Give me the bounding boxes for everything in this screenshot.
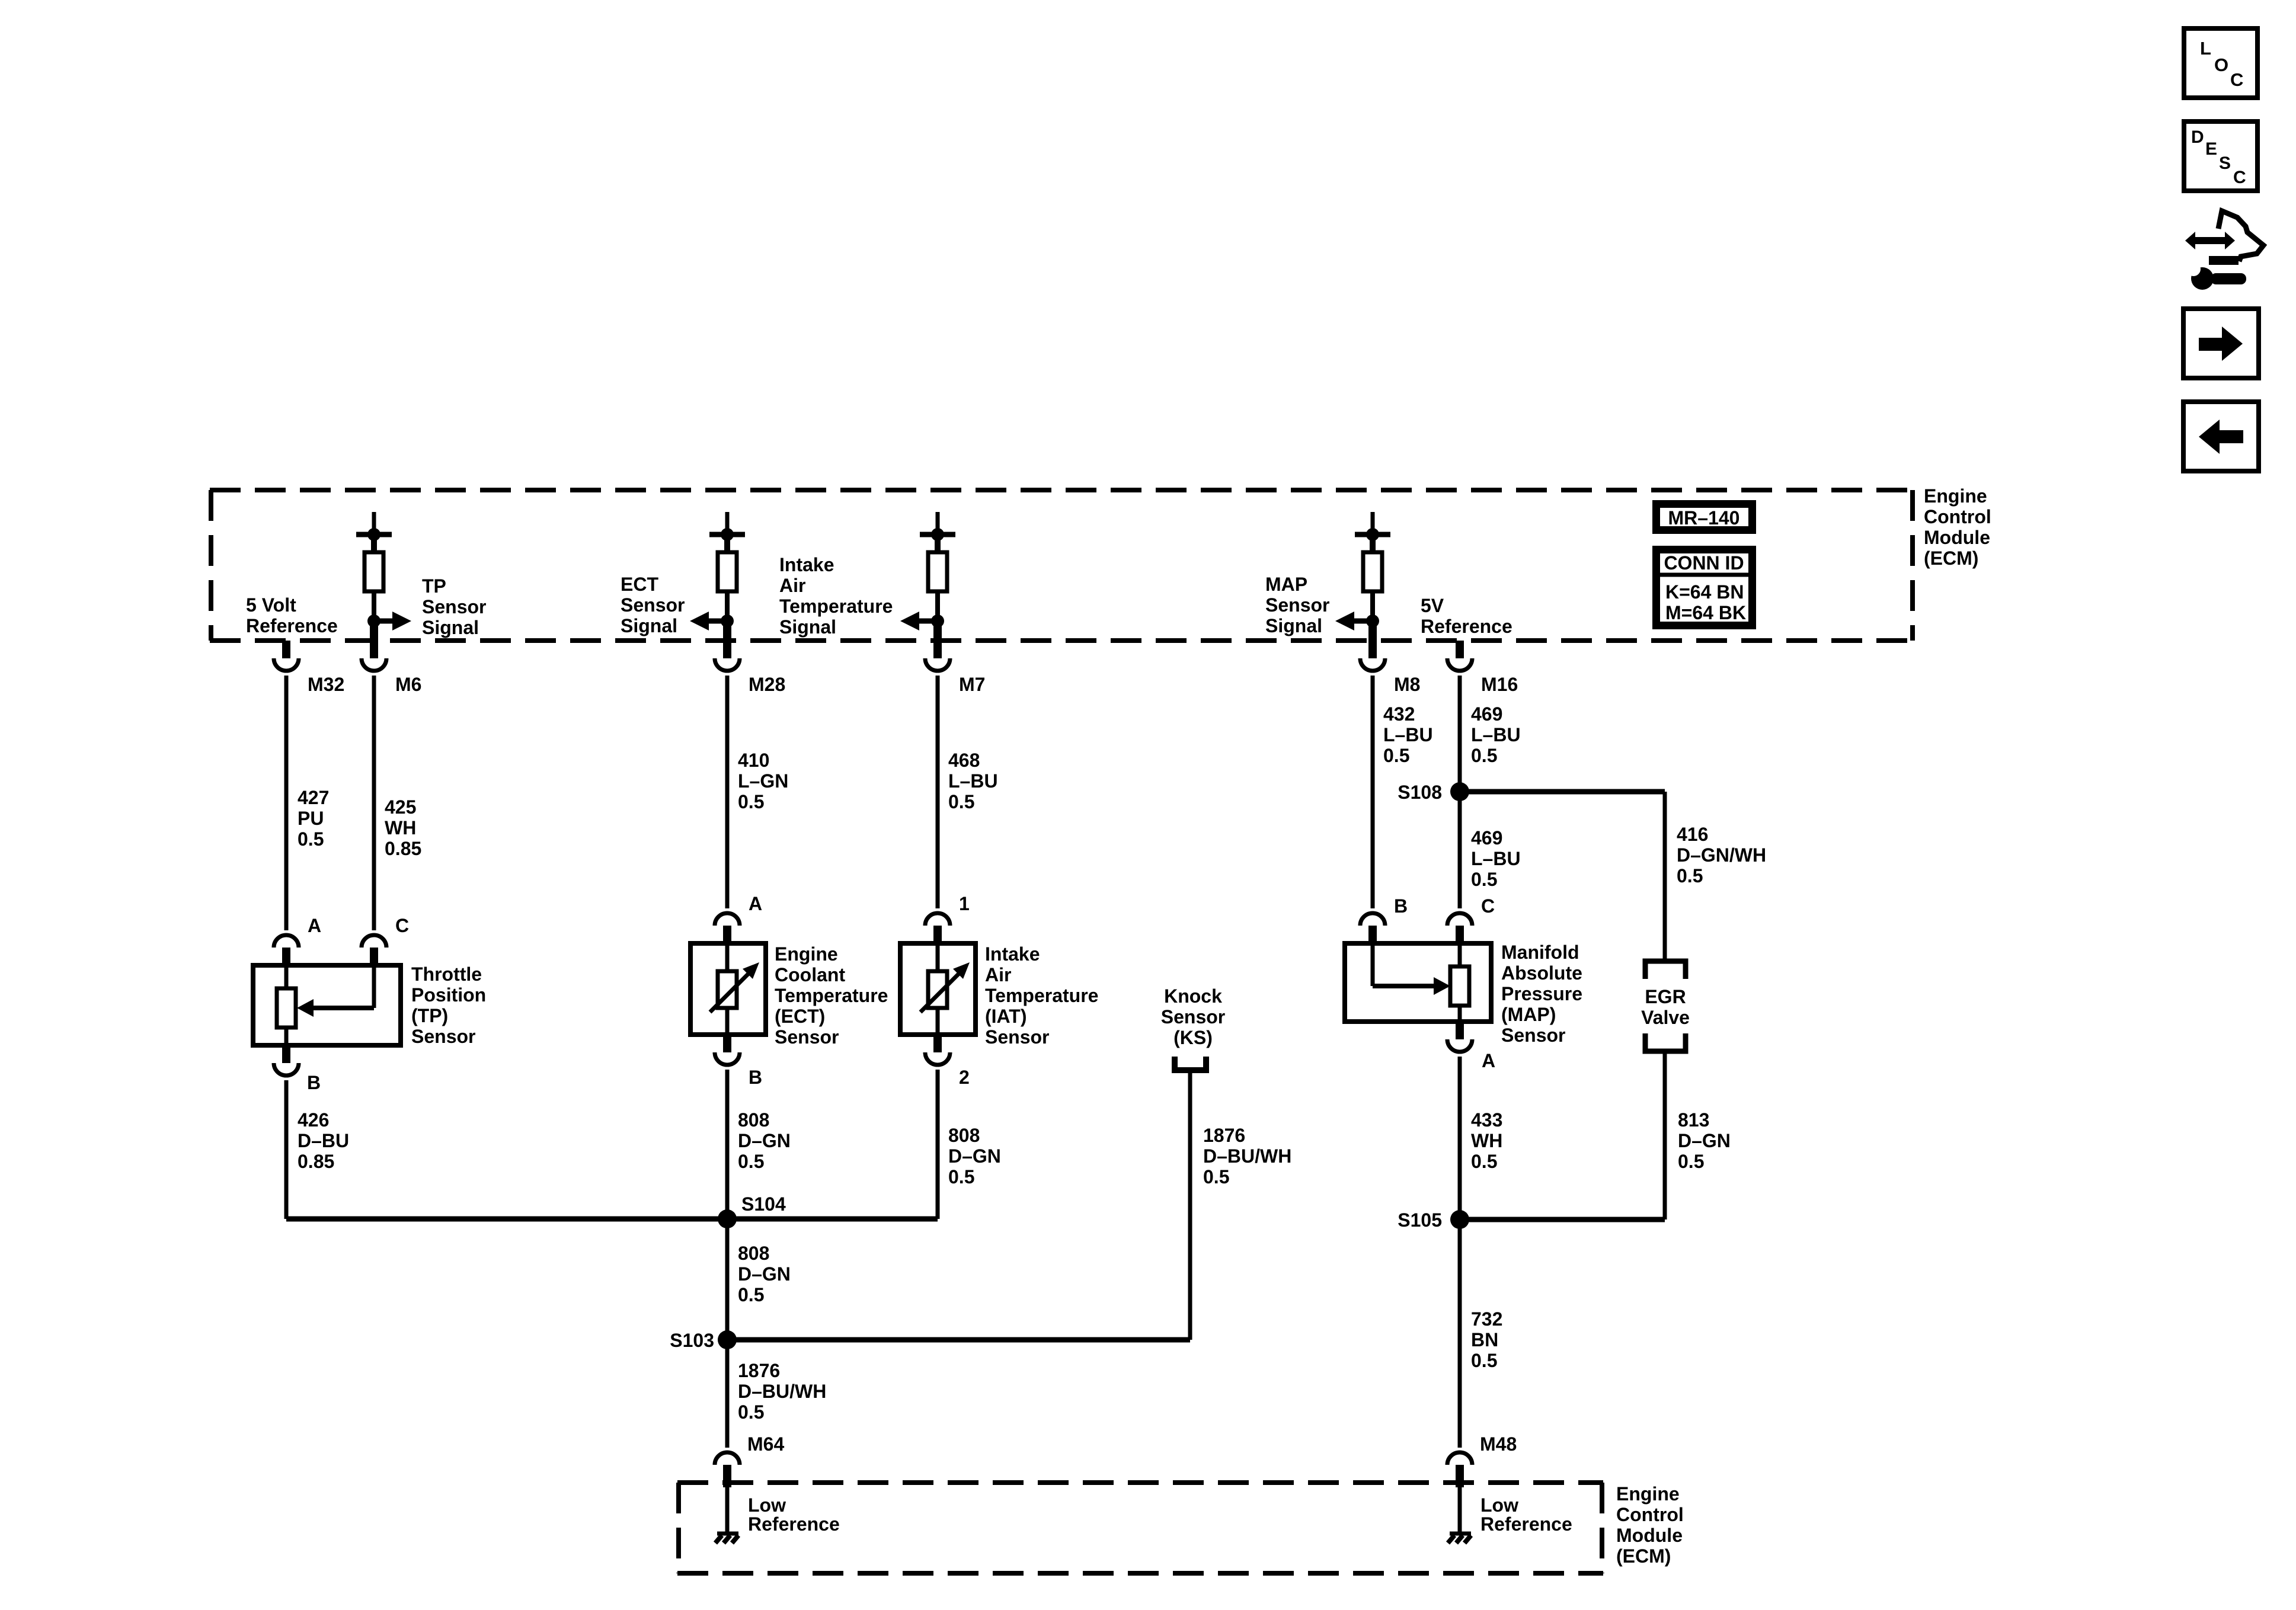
- svg-text:WH: WH: [385, 817, 416, 838]
- arrow ECT Sensor Signal: [690, 612, 727, 630]
- label wire 808 D-GN 0.5 (S104-S103): [738, 1243, 791, 1305]
- wire to ground (M48): [1458, 1487, 1462, 1534]
- label wire 410 L-GN 0.5: [738, 750, 788, 812]
- svg-text:Reference: Reference: [1480, 1513, 1572, 1535]
- connector M28: [715, 641, 740, 671]
- svg-text:M48: M48: [1480, 1433, 1517, 1455]
- label wire 426 D-BU 0.85: [298, 1109, 349, 1172]
- label pin B (ECT): [749, 1067, 762, 1088]
- svg-text:(MAP): (MAP): [1501, 1004, 1556, 1025]
- label M6: [395, 674, 421, 695]
- label S105: [1398, 1209, 1442, 1231]
- svg-text:Engine: Engine: [1616, 1483, 1680, 1505]
- svg-text:808: 808: [738, 1243, 769, 1264]
- svg-text:0.5: 0.5: [298, 828, 324, 850]
- svg-text:Low: Low: [1480, 1494, 1518, 1516]
- svg-text:M6: M6: [395, 674, 421, 695]
- label pin A (TP): [308, 915, 321, 936]
- svg-text:D: D: [2191, 127, 2204, 147]
- svg-text:Sensor: Sensor: [1501, 1025, 1565, 1046]
- junction dot M28: [721, 614, 734, 628]
- svg-text:732: 732: [1471, 1308, 1502, 1330]
- svg-text:5V: 5V: [1421, 595, 1444, 616]
- svg-text:Temperature: Temperature: [779, 596, 893, 617]
- svg-text:O: O: [2214, 55, 2228, 75]
- wire 813 (EGR down to S105): [1460, 1051, 1665, 1219]
- svg-text:Air: Air: [985, 964, 1011, 985]
- svg-text:Sensor: Sensor: [621, 594, 685, 616]
- svg-text:M=64 BK: M=64 BK: [1665, 602, 1746, 623]
- label Intake Air Temperature (IAT) Sensor: [985, 943, 1098, 1048]
- svg-text:M16: M16: [1481, 674, 1518, 695]
- svg-text:Intake: Intake: [779, 554, 834, 575]
- label wire 432 L-BU 0.5: [1383, 703, 1433, 766]
- junction S105: [1450, 1210, 1469, 1229]
- label wire 1876 D-BU/WH 0.5 (KS): [1203, 1125, 1291, 1188]
- wire 468 (M7 to IAT 1): [936, 676, 940, 908]
- svg-text:Reference: Reference: [1421, 616, 1512, 637]
- connector MAP pin C: [1447, 913, 1472, 943]
- ECT sensor box: [690, 943, 766, 1035]
- CONN ID table: [1657, 550, 1753, 626]
- svg-text:A: A: [749, 893, 762, 914]
- svg-text:1876: 1876: [738, 1360, 780, 1381]
- label TP Sensor Signal: [422, 575, 486, 638]
- label pin B (MAP): [1394, 895, 1408, 917]
- svg-text:Sensor: Sensor: [985, 1026, 1049, 1048]
- svg-text:Intake: Intake: [985, 943, 1040, 965]
- svg-text:WH: WH: [1471, 1130, 1502, 1151]
- svg-text:0.5: 0.5: [1383, 745, 1409, 766]
- label M48: [1480, 1433, 1517, 1455]
- wire 433 (MAP A down): [1458, 1057, 1462, 1219]
- svg-text:(KS): (KS): [1173, 1027, 1213, 1048]
- svg-text:0.5: 0.5: [1677, 865, 1703, 886]
- wire 469 upper (M16 to S108): [1458, 676, 1462, 792]
- label MAP Sensor Signal: [1265, 574, 1329, 636]
- svg-text:TP: TP: [422, 575, 446, 597]
- label wire 813 D-GN 0.5: [1678, 1109, 1731, 1172]
- svg-text:B: B: [749, 1067, 762, 1088]
- svg-text:E: E: [2205, 139, 2217, 159]
- svg-text:(ECM): (ECM): [1924, 548, 1978, 569]
- label pin C (TP): [395, 915, 409, 936]
- icon LOC box: [2184, 28, 2257, 98]
- svg-text:Knock: Knock: [1164, 985, 1222, 1007]
- svg-text:2: 2: [959, 1067, 970, 1088]
- label wire 808 D-GN 0.5 (ECT): [738, 1109, 791, 1172]
- junction S104: [718, 1209, 737, 1228]
- icon forward arrow box: [2183, 309, 2259, 378]
- svg-text:S108: S108: [1398, 782, 1442, 803]
- svg-text:Module: Module: [1924, 527, 1990, 548]
- wire to ground (M64): [725, 1487, 730, 1534]
- label pin A (MAP): [1482, 1050, 1495, 1071]
- svg-text:L–BU: L–BU: [948, 770, 998, 792]
- connector TP pin C: [362, 935, 386, 965]
- svg-text:Temperature: Temperature: [775, 985, 888, 1006]
- wire splice bus S104: [286, 1217, 938, 1222]
- connector IAT pin 2: [925, 1035, 950, 1065]
- svg-text:Signal: Signal: [621, 615, 677, 636]
- label S104: [741, 1193, 786, 1215]
- svg-text:0.85: 0.85: [385, 838, 421, 859]
- label wire 469 L-BU 0.5 upper: [1471, 703, 1521, 766]
- label pin A (ECT): [749, 893, 762, 914]
- arrow Intake Air Temperature Signal: [900, 612, 938, 630]
- svg-text:Signal: Signal: [422, 617, 479, 638]
- label pin C (MAP): [1481, 895, 1495, 917]
- label 5V Reference: [1421, 595, 1512, 637]
- label S108: [1398, 782, 1442, 803]
- label EGR Valve: [1641, 986, 1690, 1028]
- svg-text:(ECM): (ECM): [1616, 1545, 1671, 1567]
- svg-text:CONN ID: CONN ID: [1664, 552, 1744, 574]
- svg-text:A: A: [308, 915, 321, 936]
- connector ECT pin A: [715, 913, 740, 943]
- svg-text:C: C: [2230, 69, 2243, 90]
- svg-text:L–GN: L–GN: [738, 770, 788, 792]
- svg-text:1876: 1876: [1203, 1125, 1245, 1146]
- svg-text:D–GN/WH: D–GN/WH: [1677, 844, 1766, 866]
- svg-text:Sensor: Sensor: [411, 1026, 475, 1047]
- svg-text:MR–140: MR–140: [1668, 507, 1740, 529]
- svg-text:Sensor: Sensor: [1265, 594, 1329, 616]
- label wire 425 WH 0.85: [385, 796, 421, 859]
- label Low Reference (M48): [1480, 1494, 1572, 1535]
- wire stub M6 through ECM edge: [370, 622, 378, 641]
- junction dot M6: [367, 614, 380, 628]
- svg-text:808: 808: [948, 1125, 980, 1146]
- arrow MAP Sensor Signal: [1335, 612, 1373, 630]
- wire splice bus S103: [727, 1337, 1190, 1343]
- svg-text:D–BU: D–BU: [298, 1130, 349, 1151]
- svg-text:Control: Control: [1616, 1504, 1684, 1525]
- svg-text:468: 468: [948, 750, 980, 771]
- connector M48: [1447, 1452, 1472, 1487]
- label M7: [959, 674, 985, 695]
- IAT sensor box: [900, 943, 976, 1035]
- wire 425 (M6 to TP C): [372, 676, 376, 930]
- potentiometer resistor (TP): [277, 965, 296, 1045]
- wire 808 (ECT B down): [725, 1070, 730, 1219]
- svg-text:Reference: Reference: [748, 1513, 840, 1535]
- svg-text:S104: S104: [741, 1193, 786, 1215]
- wire 410 (M28 to ECT A): [725, 676, 730, 908]
- svg-text:Engine: Engine: [1924, 485, 1987, 507]
- svg-text:Air: Air: [779, 575, 805, 596]
- connector M6: [362, 641, 386, 671]
- label wire 427 PU 0.5: [298, 787, 329, 850]
- svg-text:Signal: Signal: [1265, 615, 1322, 636]
- svg-text:0.5: 0.5: [738, 1401, 764, 1423]
- connector M64: [715, 1452, 740, 1487]
- wire 427 (M32 to TP A): [284, 676, 289, 930]
- icon diagnostic tool (arrow, connector outline, wrench): [2182, 211, 2263, 290]
- svg-text:1: 1: [959, 893, 970, 914]
- svg-text:808: 808: [738, 1109, 769, 1131]
- label M8: [1394, 674, 1420, 695]
- svg-text:Temperature: Temperature: [985, 985, 1098, 1006]
- label pin 1 (IAT): [959, 893, 970, 914]
- potentiometer resistor (MAP): [1450, 943, 1469, 1022]
- ECM module dashed outline (bottom): [677, 1483, 1603, 1573]
- label M32: [308, 674, 344, 695]
- svg-text:(TP): (TP): [411, 1005, 448, 1026]
- svg-text:0.5: 0.5: [1471, 745, 1497, 766]
- label M64: [747, 1433, 784, 1455]
- svg-text:Throttle: Throttle: [411, 964, 482, 985]
- wire 469 lower (S108 to MAP C): [1458, 792, 1462, 908]
- svg-text:Control: Control: [1924, 506, 1991, 527]
- connector M16: [1447, 641, 1472, 671]
- svg-text:0.5: 0.5: [1678, 1151, 1704, 1172]
- svg-text:C: C: [395, 915, 409, 936]
- TP wiper arrow: [297, 965, 374, 1017]
- svg-text:Position: Position: [411, 984, 486, 1006]
- svg-text:D–GN: D–GN: [1678, 1130, 1731, 1151]
- junction S103: [718, 1330, 737, 1349]
- junction S108: [1450, 782, 1469, 801]
- svg-text:M32: M32: [308, 674, 344, 695]
- label Knock Sensor (KS): [1161, 985, 1225, 1048]
- svg-text:Engine: Engine: [775, 943, 838, 965]
- svg-text:Sensor: Sensor: [1161, 1006, 1225, 1028]
- svg-text:Coolant: Coolant: [775, 964, 845, 985]
- pull-up resistor on TP sensor signal (inside ECM): [356, 512, 392, 617]
- connector box MR-140: [1657, 504, 1753, 530]
- wire 432 (M8 to MAP B): [1371, 676, 1375, 908]
- svg-text:Pressure: Pressure: [1501, 983, 1582, 1004]
- pull-up resistor on ECT sensor signal (inside ECM): [709, 512, 745, 617]
- label wire 433 WH 0.5: [1471, 1109, 1502, 1172]
- svg-text:S103: S103: [670, 1330, 714, 1351]
- svg-text:0.5: 0.5: [738, 791, 764, 812]
- connector M7: [925, 641, 950, 671]
- svg-text:Reference: Reference: [246, 615, 338, 636]
- svg-text:0.85: 0.85: [298, 1151, 334, 1172]
- svg-text:0.5: 0.5: [948, 791, 974, 812]
- svg-text:D–GN: D–GN: [738, 1263, 791, 1285]
- connector MAP pin A: [1447, 1022, 1472, 1052]
- svg-text:S: S: [2219, 153, 2231, 173]
- wire 1876 (KS down): [1188, 1073, 1192, 1340]
- label wire 416 D-GN/WH 0.5: [1677, 824, 1766, 886]
- knock sensor terminals: [1175, 1057, 1206, 1070]
- svg-text:426: 426: [298, 1109, 329, 1131]
- svg-text:D–GN: D–GN: [948, 1145, 1001, 1167]
- connector TP pin A: [274, 935, 299, 965]
- svg-text:M8: M8: [1394, 674, 1420, 695]
- label Low Reference (M64): [748, 1494, 840, 1535]
- label Engine Control Module (ECM) bottom-right: [1616, 1483, 1684, 1567]
- svg-text:M64: M64: [747, 1433, 784, 1455]
- thermistor (IAT): [920, 943, 970, 1035]
- wire 416 horizontal (S108 to EGR): [1460, 792, 1665, 959]
- svg-text:432: 432: [1383, 703, 1415, 725]
- MAP wiper arrow: [1373, 943, 1450, 995]
- svg-text:L–BU: L–BU: [1383, 724, 1433, 745]
- svg-text:Valve: Valve: [1641, 1007, 1690, 1028]
- MAP sensor box: [1345, 943, 1491, 1022]
- arrow TP Sensor Signal: [374, 612, 411, 630]
- svg-text:0.5: 0.5: [738, 1151, 764, 1172]
- svg-text:C: C: [2233, 168, 2246, 187]
- svg-text:0.5: 0.5: [1471, 1151, 1497, 1172]
- label wire 1876 D-BU/WH 0.5 (S103-M64): [738, 1360, 826, 1423]
- svg-text:ECT: ECT: [621, 574, 658, 595]
- label wire 468 L-BU 0.5: [948, 750, 998, 812]
- pull-up resistor on IAT sensor signal (inside ECM): [920, 512, 955, 617]
- EGR valve upper terminal: [1645, 961, 1686, 979]
- svg-text:Sensor: Sensor: [775, 1026, 839, 1048]
- label Engine Control Module (ECM) top-right: [1924, 485, 1991, 569]
- wire 808 (IAT 2 down): [936, 1070, 940, 1219]
- svg-text:D–BU/WH: D–BU/WH: [1203, 1145, 1291, 1167]
- connector ECT pin B: [715, 1035, 740, 1065]
- label ECT Sensor Signal: [621, 574, 685, 636]
- icon back arrow box: [2183, 402, 2259, 471]
- label pin 2 (IAT): [959, 1067, 970, 1088]
- svg-text:0.5: 0.5: [1203, 1166, 1229, 1188]
- label wire 469 L-BU 0.5 lower: [1471, 827, 1521, 890]
- label 5 Volt Reference: [246, 594, 338, 636]
- svg-text:469: 469: [1471, 827, 1502, 849]
- wire stub M28 through ECM edge: [723, 622, 731, 641]
- label wire 732 BN 0.5: [1471, 1308, 1502, 1371]
- svg-text:C: C: [1481, 895, 1495, 917]
- svg-text:D–BU/WH: D–BU/WH: [738, 1381, 826, 1402]
- svg-text:Sensor: Sensor: [422, 596, 486, 617]
- svg-text:(IAT): (IAT): [985, 1006, 1027, 1027]
- connector MAP pin B: [1360, 913, 1385, 943]
- junction dot M8: [1366, 614, 1379, 628]
- label S103: [670, 1330, 714, 1351]
- icon DESC box: [2184, 121, 2257, 191]
- svg-text:M28: M28: [749, 674, 785, 695]
- svg-text:427: 427: [298, 787, 329, 808]
- EGR valve lower terminal: [1645, 1033, 1686, 1051]
- svg-text:D–GN: D–GN: [738, 1130, 791, 1151]
- svg-text:MAP: MAP: [1265, 574, 1307, 595]
- label Engine Coolant Temperature (ECT) Sensor: [775, 943, 888, 1048]
- svg-text:813: 813: [1678, 1109, 1709, 1131]
- connector M8: [1360, 641, 1385, 671]
- pull-up resistor on MAP sensor signal (inside ECM): [1355, 512, 1390, 617]
- svg-text:B: B: [307, 1072, 321, 1093]
- svg-text:L–BU: L–BU: [1471, 848, 1521, 869]
- svg-text:BN: BN: [1471, 1329, 1498, 1350]
- svg-text:K=64 BN: K=64 BN: [1665, 581, 1744, 603]
- wire stub M8 through ECM edge: [1368, 622, 1377, 641]
- svg-text:PU: PU: [298, 808, 324, 829]
- junction dot M7: [931, 614, 944, 628]
- svg-text:EGR: EGR: [1645, 986, 1686, 1007]
- svg-text:L–BU: L–BU: [1471, 724, 1521, 745]
- wire 808 (S104 to S103): [725, 1219, 730, 1340]
- label M28: [749, 674, 785, 695]
- svg-text:Absolute: Absolute: [1501, 962, 1582, 984]
- svg-text:M7: M7: [959, 674, 985, 695]
- TP sensor box: [253, 965, 401, 1045]
- ground symbol (M48): [1448, 1534, 1471, 1543]
- svg-text:Low: Low: [748, 1494, 786, 1516]
- connector M32: [274, 641, 299, 671]
- wire 1876 (S103 to M64): [725, 1340, 730, 1448]
- svg-text:410: 410: [738, 750, 769, 771]
- ECM module dashed outline (top): [210, 490, 1914, 641]
- svg-text:A: A: [1482, 1050, 1495, 1071]
- svg-text:5 Volt: 5 Volt: [246, 594, 296, 616]
- label wire 808 D-GN 0.5 (IAT): [948, 1125, 1001, 1188]
- svg-text:0.5: 0.5: [738, 1284, 764, 1305]
- label Intake Air Temperature Signal: [779, 554, 893, 638]
- svg-text:433: 433: [1471, 1109, 1502, 1131]
- svg-text:L: L: [2200, 38, 2211, 59]
- svg-text:S105: S105: [1398, 1209, 1442, 1231]
- svg-text:B: B: [1394, 895, 1408, 917]
- svg-text:0.5: 0.5: [948, 1166, 974, 1188]
- svg-text:416: 416: [1677, 824, 1708, 845]
- svg-text:469: 469: [1471, 703, 1502, 725]
- label Throttle Position (TP) Sensor: [411, 964, 486, 1047]
- svg-text:Module: Module: [1616, 1525, 1683, 1546]
- wire 732 (S105 to M48): [1458, 1219, 1462, 1448]
- connector IAT pin 1: [925, 913, 950, 943]
- svg-text:Manifold: Manifold: [1501, 942, 1579, 963]
- label pin B (TP): [307, 1072, 321, 1093]
- svg-text:Signal: Signal: [779, 616, 836, 638]
- svg-text:0.5: 0.5: [1471, 869, 1497, 890]
- thermistor (ECT): [710, 943, 759, 1035]
- svg-text:(ECT): (ECT): [775, 1006, 825, 1027]
- svg-text:0.5: 0.5: [1471, 1350, 1497, 1371]
- ground symbol (M64): [715, 1534, 738, 1543]
- wire stub M7 through ECM edge: [933, 622, 942, 641]
- svg-text:425: 425: [385, 796, 416, 818]
- label M16: [1481, 674, 1518, 695]
- label Manifold Absolute Pressure (MAP) Sensor: [1501, 942, 1582, 1046]
- wire 426 (TP B down): [284, 1080, 289, 1219]
- connector TP pin B: [274, 1045, 299, 1076]
